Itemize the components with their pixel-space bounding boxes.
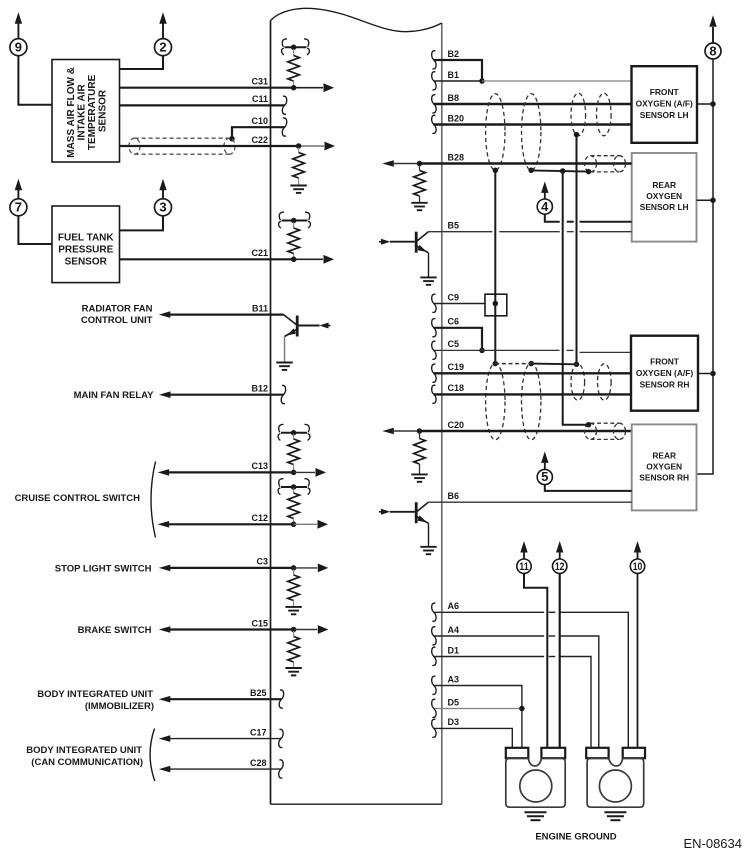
svg-text:(CAN COMMUNICATION): (CAN COMMUNICATION) [31, 757, 143, 768]
svg-text:C13: C13 [251, 461, 268, 471]
circled 9 [10, 12, 27, 56]
svg-text:C10: C10 [251, 116, 268, 126]
wire: fuel tank sensor to circled 7 [18, 216, 52, 244]
svg-text:ENGINE GROUND: ENGINE GROUND [535, 832, 616, 843]
wire C22 [120, 145, 299, 147]
wire C13 [158, 469, 170, 476]
wire C12 [158, 521, 170, 528]
wire C9 [434, 303, 485, 305]
wire D1 [434, 656, 544, 658]
ground [420, 547, 436, 554]
svg-text:12: 12 [555, 561, 565, 573]
wire D3 [434, 728, 513, 749]
wire B8 [434, 103, 632, 105]
svg-text:C20: C20 [448, 420, 465, 430]
block left edge [270, 21, 272, 805]
svg-text:SENSOR LH: SENSOR LH [640, 202, 689, 212]
svg-text:MAIN FAN RELAY: MAIN FAN RELAY [74, 390, 155, 401]
svg-text:D1: D1 [448, 645, 460, 655]
svg-text:BODY INTEGRATED UNIT: BODY INTEGRATED UNIT [26, 745, 142, 756]
svg-text:(IMMOBILIZER): (IMMOBILIZER) [85, 701, 154, 712]
svg-text:D5: D5 [448, 697, 460, 707]
cruise control switch bracket arc [151, 462, 156, 538]
svg-text:OXYGEN (A/F): OXYGEN (A/F) [636, 98, 693, 108]
svg-text:FRONT: FRONT [650, 357, 680, 367]
wire rear LH sensor to bus [697, 199, 714, 201]
shield capsule around B8/B20 (twisted pair) [486, 94, 541, 171]
node B2/B1 junction [479, 78, 485, 84]
wire: fuel tank sensor to circled 3 [120, 216, 164, 231]
ground [285, 607, 301, 614]
svg-text:D3: D3 [448, 717, 460, 727]
ground [411, 203, 427, 210]
svg-text:SENSOR RH: SENSOR RH [640, 379, 690, 389]
ground [420, 277, 436, 284]
wire from circled 12 to ground bolt 1 [559, 573, 561, 749]
rear oxygen sensor RH box [632, 424, 697, 510]
shield capsule around C22 [129, 138, 235, 154]
svg-text:B6: B6 [448, 491, 460, 501]
node D5/A3 junction [519, 706, 525, 712]
svg-text:B8: B8 [448, 93, 460, 103]
svg-text:FRONT: FRONT [650, 87, 680, 97]
ground [411, 474, 427, 481]
wire B11 [159, 311, 171, 318]
circled 8 [705, 15, 721, 59]
drain vertical LH-RH shields [563, 171, 589, 425]
svg-text:A3: A3 [448, 674, 460, 684]
svg-text:RADIATOR FAN: RADIATOR FAN [82, 304, 153, 315]
drain link to vertical [531, 170, 588, 171]
wire A3 [434, 686, 522, 750]
svg-text:8: 8 [709, 43, 716, 58]
shield drain: RH big capsule top junctions [493, 361, 499, 367]
wire C15 [159, 626, 171, 633]
circled 2 [155, 12, 172, 56]
svg-text:10: 10 [633, 561, 643, 573]
wire B5 [428, 231, 492, 233]
circled 11 [517, 541, 531, 573]
wire C28 [159, 766, 171, 773]
svg-text:BODY INTEGRATED UNIT: BODY INTEGRATED UNIT [37, 689, 153, 700]
wire: MAF to circled 9 [18, 56, 52, 105]
wire C11 [120, 104, 285, 106]
wire A6 [434, 611, 544, 613]
svg-text:C3: C3 [256, 557, 268, 567]
CAN bracket arc [150, 729, 155, 782]
pull-up resistor motif above C12 [278, 479, 310, 525]
circled 12 [553, 541, 567, 573]
svg-text:5: 5 [541, 469, 548, 484]
svg-text:B20: B20 [448, 113, 465, 123]
svg-text:OXYGEN: OXYGEN [646, 191, 682, 201]
circled 3 [155, 179, 172, 216]
circled 10 [630, 541, 644, 573]
wire front RH sensor to bus [698, 373, 713, 375]
svg-text:B5: B5 [448, 221, 460, 231]
resistor B28 to ground [419, 165, 421, 171]
front oxygen (A/F) sensor LH box [632, 66, 698, 143]
svg-text:SENSOR RH: SENSOR RH [639, 473, 689, 483]
shield drain: big capsule bottom junctions [493, 168, 499, 174]
svg-text:C12: C12 [251, 513, 268, 523]
svg-text:B28: B28 [448, 152, 465, 162]
resistor C22 to ground [296, 143, 302, 149]
svg-text:C28: C28 [250, 758, 267, 768]
shield capsule around C20 near rear RH sensor [585, 423, 626, 439]
ground bolt unit 2 [586, 748, 645, 820]
block bottom edge [271, 803, 442, 805]
drain vertical via C9 [494, 170, 496, 363]
wire from circled 11 to ground bolt 1 [524, 573, 547, 749]
svg-text:7: 7 [15, 200, 22, 215]
svg-text:C15: C15 [251, 618, 268, 628]
transistor Q2 (B5 driver) [379, 232, 437, 285]
svg-text:C19: C19 [448, 362, 465, 372]
shield capsule near front LH sensor [571, 93, 611, 136]
circled 7 [10, 179, 27, 216]
svg-text:C9: C9 [448, 292, 460, 302]
svg-text:11: 11 [519, 561, 529, 573]
svg-text:C5: C5 [448, 339, 460, 349]
svg-text:B12: B12 [251, 384, 268, 394]
svg-text:C21: C21 [251, 248, 268, 258]
ground [285, 668, 301, 675]
shield junction box on C9 [485, 294, 507, 316]
svg-text:2: 2 [159, 40, 166, 55]
resistor C20 to ground [419, 433, 421, 439]
svg-text:FUEL TANK: FUEL TANK [58, 233, 115, 244]
ground bolt unit 1 [506, 748, 565, 820]
svg-text:9: 9 [15, 40, 22, 55]
svg-text:REAR: REAR [652, 451, 676, 461]
wire A4 [434, 635, 544, 637]
pull-up resistor motif above C31 [282, 39, 310, 90]
wire C3 [159, 565, 171, 572]
wire C20 [382, 428, 394, 435]
svg-text:STOP LIGHT SWITCH: STOP LIGHT SWITCH [55, 563, 152, 574]
wire C17 [159, 735, 171, 742]
block top wavy edge [271, 8, 442, 31]
svg-text:C31: C31 [251, 77, 268, 87]
pull-up resistor motif above C21 [279, 212, 311, 262]
shield capsule near front RH sensor [571, 364, 611, 400]
transistor Q1 (radiator fan driver) [276, 315, 330, 370]
svg-text:4: 4 [541, 199, 549, 214]
wire B25 [159, 696, 171, 703]
wire B28 [382, 160, 394, 167]
svg-text:B11: B11 [252, 303, 268, 313]
svg-text:CONTROL UNIT: CONTROL UNIT [81, 315, 153, 326]
block right edge [441, 23, 443, 804]
wire B1 [434, 80, 482, 82]
ground [276, 363, 292, 370]
wire C5 [434, 349, 560, 351]
svg-text:OXYGEN: OXYGEN [646, 462, 682, 472]
circled 5 [537, 451, 552, 484]
svg-text:3: 3 [159, 200, 166, 215]
resistor C3 to ground [293, 570, 295, 576]
rear oxygen sensor LH box [632, 153, 697, 242]
circled 4 [537, 181, 552, 214]
wire D5 [434, 708, 522, 710]
mass air flow & intake air temperature sensor box [52, 60, 120, 163]
svg-text:C11: C11 [252, 94, 268, 104]
wire front LH sensor to bus [697, 103, 713, 105]
shield capsule around C19/C18 (twisted pair) [486, 363, 541, 440]
wire B2 [434, 60, 482, 81]
svg-text:A4: A4 [448, 625, 460, 635]
wire: MAF to circled 2 [120, 56, 164, 69]
svg-text:B1: B1 [448, 70, 460, 80]
wire C10 [232, 127, 285, 138]
svg-text:PRESSURE: PRESSURE [58, 245, 113, 256]
ECM connector block outline [271, 8, 442, 804]
drain: upper small capsule to lower [574, 132, 580, 138]
svg-text:C22: C22 [251, 135, 268, 145]
wire C19 [434, 372, 631, 374]
wire circled 4 to rear LH sensor [545, 214, 560, 222]
resistor C15 to ground [293, 631, 295, 637]
svg-text:C6: C6 [448, 317, 460, 327]
front oxygen (A/F) sensor RH box [631, 336, 698, 411]
junction: C10 drain to shield [229, 136, 235, 142]
ground [290, 186, 306, 193]
svg-text:A6: A6 [448, 601, 460, 611]
wire B6 [428, 501, 631, 503]
wire C21 [120, 258, 294, 260]
svg-text:C17: C17 [250, 727, 267, 737]
svg-text:CRUISE CONTROL SWITCH: CRUISE CONTROL SWITCH [15, 493, 141, 504]
svg-text:B2: B2 [448, 49, 460, 59]
svg-text:REAR: REAR [652, 180, 676, 190]
wire circled 5 to rear RH sensor [545, 485, 632, 491]
fuel tank pressure sensor box [52, 206, 120, 283]
wire C6 [434, 328, 482, 351]
node C6/C5 junction [479, 348, 485, 354]
pull-up resistor motif above C13 [278, 424, 310, 472]
wire B20 [434, 123, 632, 125]
svg-text:EN-08634: EN-08634 [683, 836, 742, 851]
svg-text:C18: C18 [448, 383, 465, 393]
shield capsule around B28 near rear LH sensor [585, 156, 626, 172]
wire C18 [434, 393, 631, 395]
svg-text:BRAKE SWITCH: BRAKE SWITCH [78, 625, 152, 636]
svg-text:B25: B25 [250, 688, 267, 698]
transistor Q3 (B6 driver) [379, 502, 437, 554]
bus wire from circled 8 down right side [697, 59, 714, 474]
wire from circled 10 to ground bolt 2 [637, 573, 639, 749]
svg-text:SENSOR: SENSOR [65, 257, 108, 268]
wire C31 [120, 87, 295, 89]
wire B12 [159, 391, 171, 398]
svg-text:SENSOR LH: SENSOR LH [640, 110, 689, 120]
svg-text:OXYGEN (A/F): OXYGEN (A/F) [636, 368, 693, 378]
